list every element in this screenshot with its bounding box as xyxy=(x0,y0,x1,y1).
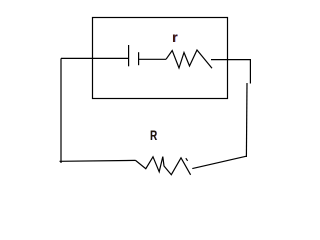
battery box outline xyxy=(93,18,228,99)
wire right vertical lower xyxy=(245,83,248,157)
wire left vertical xyxy=(60,58,62,163)
wire battery to resistor r xyxy=(139,58,166,60)
wire resistor r to right side xyxy=(211,59,251,61)
label r (internal resistance) xyxy=(172,29,177,45)
resistor r zigzag xyxy=(166,50,212,68)
label R (external resistance) xyxy=(150,127,157,143)
resistor R top stub xyxy=(186,158,188,161)
resistor R zigzag xyxy=(136,157,191,175)
wire left horizontal to battery xyxy=(61,57,128,59)
battery B1 long plate xyxy=(128,45,130,66)
wire diagonal from R to right vertical xyxy=(192,156,246,168)
wire bottom horizontal to resistor R xyxy=(60,159,136,162)
wire right vertical upper xyxy=(249,60,251,84)
battery B1 short plate xyxy=(138,52,140,65)
